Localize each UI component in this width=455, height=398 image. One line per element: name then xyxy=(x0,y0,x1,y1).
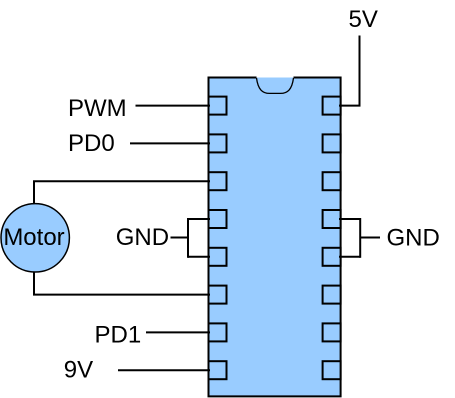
svg-text:5V: 5V xyxy=(349,6,378,33)
pin 7 left (PD1) xyxy=(209,323,227,341)
motor M1 xyxy=(1,204,69,272)
pin 14 right xyxy=(323,172,341,190)
wire PD0 to pin 2 xyxy=(130,142,210,144)
svg-text:GND: GND xyxy=(387,225,440,252)
wire GND right stub to pin 13 xyxy=(339,218,360,220)
pin 4 left (GND) xyxy=(209,210,227,228)
wire GND left stub to pin 4 xyxy=(188,218,210,220)
svg-text:Motor: Motor xyxy=(3,224,64,251)
pin 12 right (GND) xyxy=(323,248,341,266)
pin 13 right (GND) xyxy=(323,210,341,228)
wire GND left stub to pin 5 xyxy=(188,256,210,258)
pin 9 right xyxy=(323,361,341,379)
wire GND right bracket vertical xyxy=(359,218,361,258)
wire GND right dash xyxy=(360,237,380,239)
svg-text:PD1: PD1 xyxy=(95,322,142,349)
IC U1 body outline (gap at notch) xyxy=(209,78,341,397)
wire 5V to pin 16 xyxy=(339,36,360,106)
pin 6 left (motor bottom) xyxy=(209,286,227,304)
wire GND right stub to pin 12 xyxy=(339,256,360,258)
pin 16 right (5V) xyxy=(323,97,341,115)
pin 10 right xyxy=(323,323,341,341)
svg-text:PD0: PD0 xyxy=(68,130,115,157)
wire GND left dash xyxy=(171,237,189,239)
pin 11 right xyxy=(323,286,341,304)
wire PWM to pin 1 xyxy=(136,105,211,107)
wire GND left bracket vertical xyxy=(187,218,189,258)
pin 8 left (9V) xyxy=(209,361,227,379)
IC U1 orientation notch xyxy=(257,78,294,93)
wire motor bottom to pin 6 xyxy=(34,272,210,295)
svg-text:9V: 9V xyxy=(64,357,93,384)
pin 3 left (motor top) xyxy=(209,172,227,190)
pin 15 right xyxy=(323,134,341,152)
wire PD1 to pin 7 xyxy=(146,331,210,333)
wire motor top to pin 3 xyxy=(34,181,210,204)
pin 2 left (PD0) xyxy=(209,134,227,152)
pin 5 left (GND) xyxy=(209,248,227,266)
IC U1 body fill xyxy=(209,78,341,397)
pin 1 left (PWM) xyxy=(209,97,227,115)
svg-text:GND: GND xyxy=(116,224,169,251)
wire 9V to pin 8 xyxy=(118,369,210,371)
svg-text:PWM: PWM xyxy=(68,95,127,122)
